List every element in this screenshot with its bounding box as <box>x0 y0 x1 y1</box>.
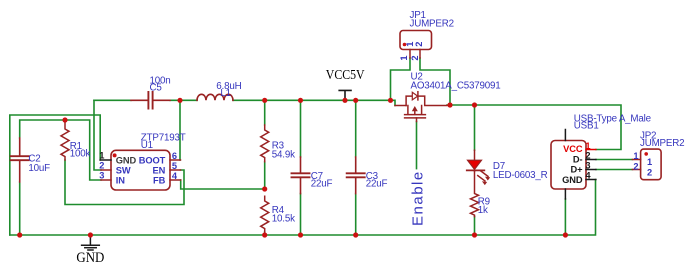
svg-text:1k: 1k <box>478 205 488 216</box>
wire drain bus to USB VCC <box>447 105 621 150</box>
svg-text:1: 1 <box>647 157 652 167</box>
LED D7 <box>467 150 490 184</box>
USB1 pin 3 line (D+) <box>586 169 596 171</box>
svg-text:Enable: Enable <box>410 170 427 226</box>
inductor L1 <box>197 94 233 100</box>
wire R3 bottom <box>264 162 266 189</box>
wire source jog <box>391 100 396 105</box>
wire SW vertical <box>94 100 101 170</box>
power symbol VCC5V <box>339 90 351 100</box>
JP2 pin 2 line <box>632 169 640 171</box>
wire R3 top <box>264 100 266 125</box>
USB1 pin 1 line (VCC) <box>586 149 596 151</box>
wire R4 bottom <box>264 232 266 235</box>
node shield ground junction <box>563 232 568 237</box>
svg-text:22uF: 22uF <box>366 179 388 190</box>
svg-text:GND: GND <box>76 250 104 266</box>
svg-text:100k: 100k <box>70 148 91 159</box>
JP2 pin 1 line <box>632 159 640 161</box>
ground symbol GND <box>82 235 100 250</box>
svg-text:2: 2 <box>414 42 424 47</box>
svg-text:L1: L1 <box>220 88 231 99</box>
connector USB1 body <box>551 141 586 190</box>
node C2 ground junction <box>17 232 22 237</box>
node C7 top junction <box>298 98 303 103</box>
svg-text:U1: U1 <box>141 140 153 151</box>
node source junction <box>388 98 393 103</box>
JP1 pin 2 line <box>419 50 421 59</box>
JP2 pin1 marker dot <box>644 152 648 156</box>
svg-text:GND: GND <box>116 156 137 166</box>
IC U1 ZTP7193T body <box>111 150 170 190</box>
USB1 pin 2 line (D-) <box>586 159 596 161</box>
svg-text:1: 1 <box>633 151 638 161</box>
svg-text:VCC5V: VCC5V <box>326 68 365 83</box>
wire FB to divider <box>181 180 265 189</box>
svg-text:D-: D- <box>573 154 583 164</box>
capacitor C7 <box>292 157 310 194</box>
USB1 shield pin top <box>564 130 566 141</box>
svg-text:FB: FB <box>153 176 166 186</box>
node GND symbol junction <box>88 232 93 237</box>
node R1 top junction <box>62 117 67 122</box>
svg-text:3: 3 <box>585 161 590 171</box>
resistor R1 <box>61 121 69 160</box>
wire bottom ground rail <box>10 180 596 236</box>
node FB divider junction <box>262 186 267 191</box>
svg-text:5: 5 <box>172 161 177 171</box>
U1 pin 2 line (SW) <box>101 169 111 171</box>
connector JP1 body <box>400 31 432 50</box>
U1 pin 6 line (BOOT) <box>170 159 181 161</box>
svg-text:1: 1 <box>585 141 590 151</box>
U1 pin 4 line (FB) <box>170 179 181 181</box>
svg-text:1: 1 <box>99 150 104 160</box>
JP1 pin 1 line <box>409 50 411 59</box>
USB1 pin 4 line (GND) <box>586 179 596 181</box>
transistor U2 (AO3401 P-MOSFET) <box>395 92 447 122</box>
U1 pin1 marker dot <box>113 153 117 157</box>
node LED top junction <box>472 102 477 107</box>
JP1 pin1 marker dot <box>403 43 407 47</box>
wire C2 bottom <box>19 182 21 235</box>
capacitor C2 <box>11 138 29 182</box>
wire USB D- to JP2 <box>596 159 632 161</box>
svg-text:JUMPER2: JUMPER2 <box>640 138 684 149</box>
svg-text:USB1: USB1 <box>574 120 599 131</box>
node R4 ground junction <box>262 232 267 237</box>
wire C7 branch <box>300 100 302 235</box>
wire main top rail y=100 <box>10 58 633 235</box>
svg-text:1: 1 <box>399 56 409 61</box>
svg-text:22uF: 22uF <box>311 179 333 190</box>
wire C3 branch <box>355 100 357 235</box>
node C7 ground junction <box>298 232 303 237</box>
svg-text:AO3401A_C5379091: AO3401A_C5379091 <box>411 80 501 91</box>
node R9 ground junction <box>472 232 477 237</box>
svg-text:SW: SW <box>116 166 131 176</box>
svg-text:EN: EN <box>152 166 165 176</box>
wire gate Enable <box>416 122 418 169</box>
U1 pin 3 line (IN) <box>101 179 111 181</box>
wire R9 bottom <box>474 217 476 235</box>
svg-text:IN: IN <box>116 176 125 186</box>
wire JP1 pin1 <box>391 58 411 100</box>
wire R1 bottom to EN <box>65 160 184 205</box>
svg-text:3: 3 <box>99 170 104 180</box>
svg-text:VCC: VCC <box>563 144 583 154</box>
svg-text:2: 2 <box>647 167 652 177</box>
node C3 top junction <box>353 98 358 103</box>
U1 pin 1 line (GND) <box>100 159 111 161</box>
svg-text:GND: GND <box>562 175 583 185</box>
resistor R9 <box>471 171 479 217</box>
wire gnd upper A <box>10 115 100 235</box>
svg-text:JUMPER2: JUMPER2 <box>410 18 454 29</box>
svg-text:10uF: 10uF <box>28 163 50 174</box>
resistor R3 <box>261 125 269 162</box>
svg-text:10.5k: 10.5k <box>272 213 295 224</box>
svg-text:2: 2 <box>585 151 590 161</box>
capacitor C3 <box>347 157 365 194</box>
wire IN upper B <box>20 120 101 180</box>
svg-text:C5: C5 <box>150 83 163 94</box>
svg-text:54.9k: 54.9k <box>272 149 295 160</box>
svg-text:2: 2 <box>633 161 638 171</box>
wire BOOT vertical <box>179 100 181 160</box>
svg-text:6: 6 <box>172 151 177 161</box>
svg-text:BOOT: BOOT <box>139 156 166 166</box>
node C3 ground junction <box>353 232 358 237</box>
wire USB shield to ground <box>564 199 566 235</box>
capacitor C5 <box>131 92 170 109</box>
connector JP2 body <box>641 149 662 180</box>
node VCC5V junction <box>342 98 347 103</box>
svg-text:2: 2 <box>410 56 420 61</box>
wire JP1 pin2 <box>420 58 450 105</box>
svg-text:D+: D+ <box>571 165 584 175</box>
svg-text:2: 2 <box>99 160 104 170</box>
USB1 shield pin bottom <box>564 189 566 199</box>
wire USB D+ to JP2 <box>596 169 632 171</box>
node drain junction <box>447 102 452 107</box>
resistor R4 <box>261 196 269 232</box>
U1 pin 5 line (EN) <box>170 169 181 171</box>
wire LED top <box>474 105 476 150</box>
node BOOT junction <box>177 98 182 103</box>
node R3 top junction <box>262 98 267 103</box>
svg-text:LED-0603_R: LED-0603_R <box>493 170 548 181</box>
